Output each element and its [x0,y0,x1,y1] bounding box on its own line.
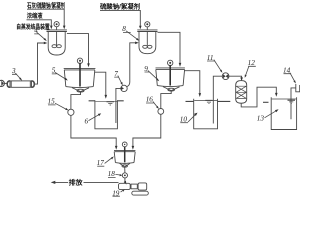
wire pump 7 to tank 8 [127,43,135,87]
svg-text:18: 18 [108,170,116,178]
svg-text:14: 14 [283,66,291,74]
tank 9 mixing settler [156,68,185,70]
wire tank 4 to tank 5 [67,34,89,64]
pump 7 [121,85,127,91]
wire tank 17 cone to valve 18 [124,167,126,173]
motor of tank 5 [77,58,82,63]
wire pump 11 to column 12 [229,76,242,78]
svg-text:浓缩液: 浓缩液 [27,12,43,20]
tank 4 stirred vessel [47,30,67,32]
liquid level tank 10 [205,99,212,101]
tank 5 mixing settler [64,68,96,70]
pump 11 [222,73,229,80]
pump 15 [68,109,74,115]
wire tank 8 to tank 9 [158,32,181,63]
filter press 19 left box [119,183,131,189]
svg-text:排放: 排放 [69,178,83,187]
column 12 [236,81,247,104]
motor of tank 17 [122,142,127,147]
filter press 19 base plate [132,191,149,195]
motor of tank 8 [145,22,150,27]
wire from concentrate label into tank 4 [27,20,52,26]
svg-text:自蒸发结晶装置: 自蒸发结晶装置 [16,23,50,31]
wire valve 16 to tank 17 [133,114,161,146]
tank 6 [95,100,118,129]
tank 17 mixing tank [114,150,135,151]
wire from top-center label into tank 8 [100,10,140,26]
wire tank 5 cone to pump 15 [71,92,81,110]
liquid level tank 6 [107,101,115,103]
discharge wire 排放 [55,181,119,183]
valve 18 [122,173,127,178]
filter press 19 middle box [131,184,137,189]
svg-text:15: 15 [48,98,56,106]
wire from lime label underline into tank 4 [27,9,64,26]
tank 13 [271,97,296,129]
svg-text:13: 13 [257,115,265,123]
wire column 12 bottom tee [186,100,231,102]
svg-text:5: 5 [52,67,56,75]
svg-text:3: 3 [11,67,16,75]
vessel 3 horizontal cylinder [10,81,32,87]
motor of tank 9 [168,60,173,65]
pump 7 suction dip tube [116,88,121,123]
liquid level tank 13 [288,99,296,101]
pump 11 suction dip tube [213,76,222,123]
wire valve 18 to filter press [124,178,126,183]
filter press 19 right box [138,183,147,190]
wire tank 9 overflow to tank 10 [184,71,199,94]
tank 8 stirred vessel [137,30,157,32]
valve 16 [158,109,164,115]
svg-text:16: 16 [146,96,154,104]
wire pump 15 to tank 17 [71,115,116,146]
pump 14 [296,84,300,92]
tank 10 [194,99,218,129]
label underlines [12,32,291,196]
feed pump at left edge [0,80,4,86]
motor of tank 4 [54,22,59,27]
stray level tick left of tank 13 [263,101,269,103]
svg-text:石灰/硫酸钠/絮凝剂: 石灰/硫酸钠/絮凝剂 [26,1,65,10]
wire cylinder 3 to tank 4 [34,43,44,84]
svg-text:7: 7 [114,70,118,78]
svg-text:12: 12 [248,59,256,67]
wire tank 9 cone to valve 16 [161,91,171,109]
wire tank 5 overflow to tank 6 [95,72,106,95]
svg-text:硫酸钠/絮凝剂: 硫酸钠/絮凝剂 [100,2,140,11]
svg-text:6: 6 [85,118,89,126]
